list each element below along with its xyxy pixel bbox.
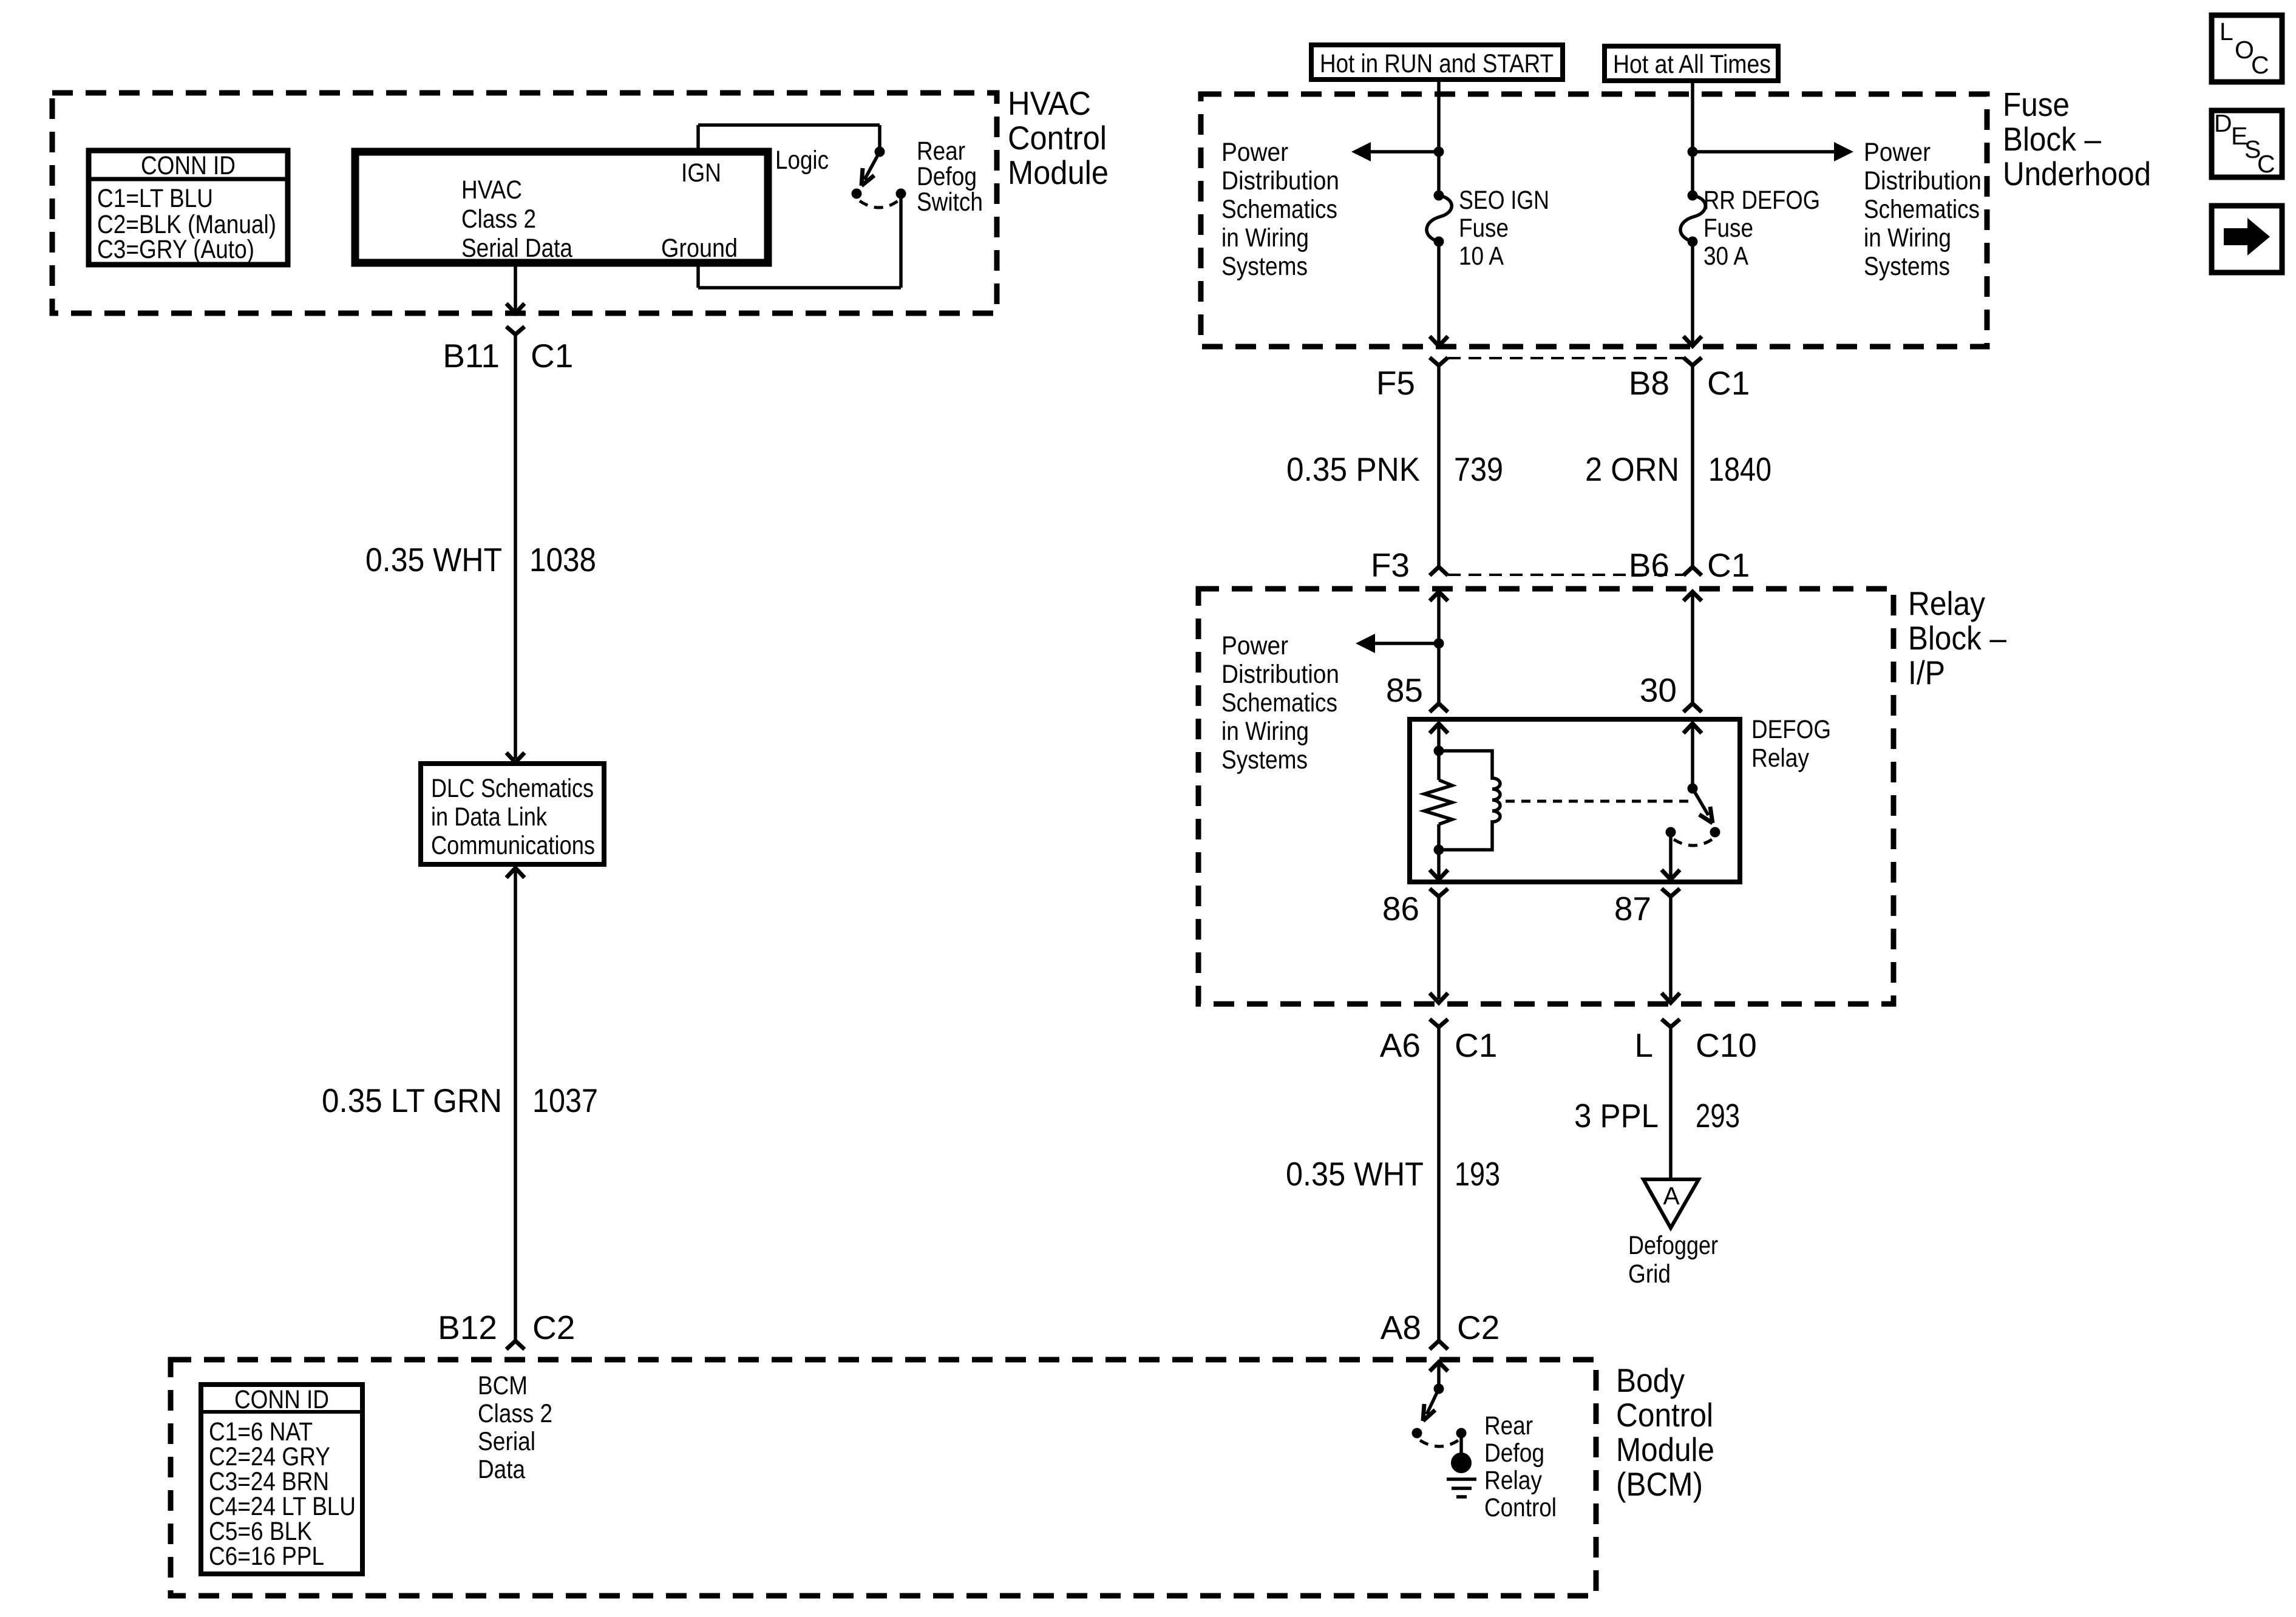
connector fork B12 xyxy=(506,1341,525,1349)
svg-text:B12: B12 xyxy=(438,1309,497,1346)
svg-text:30: 30 xyxy=(1640,671,1677,709)
wire 87 to relay border xyxy=(1669,897,1673,999)
wire B8 to B6 xyxy=(1691,365,1694,566)
wire resistor to pin 86 xyxy=(1437,824,1441,876)
svg-text:Power: Power xyxy=(1221,631,1288,660)
svg-text:0.35 WHT: 0.35 WHT xyxy=(1286,1155,1424,1193)
svg-text:Defog: Defog xyxy=(1484,1439,1544,1468)
rear defog switch (HVAC) xyxy=(852,147,906,208)
Power Distribution text (fuse right) xyxy=(1864,138,1982,281)
relay coil xyxy=(1439,751,1500,850)
svg-text:Defogger: Defogger xyxy=(1628,1231,1718,1260)
wire A6 to A8 xyxy=(1437,1027,1441,1340)
svg-text:Schematics: Schematics xyxy=(1864,195,1980,224)
arrowhead into relay block right xyxy=(1683,592,1702,601)
svg-text:Hot at All Times: Hot at All Times xyxy=(1613,50,1771,79)
svg-text:B8: B8 xyxy=(1629,364,1669,402)
svg-text:0.35 WHT: 0.35 WHT xyxy=(365,541,502,578)
svg-text:Power: Power xyxy=(1221,138,1288,167)
svg-text:10 A: 10 A xyxy=(1459,242,1504,271)
svg-text:B6: B6 xyxy=(1629,546,1669,584)
svg-text:Systems: Systems xyxy=(1864,252,1950,281)
wire to coil node xyxy=(1437,724,1441,780)
svg-text:1038: 1038 xyxy=(529,541,596,578)
svg-text:C1: C1 xyxy=(1455,1026,1497,1064)
svg-text:C6=16 PPL: C6=16 PPL xyxy=(209,1542,324,1571)
svg-text:739: 739 xyxy=(1454,450,1503,488)
svg-text:Ground: Ground xyxy=(661,234,738,263)
svg-text:L: L xyxy=(2220,18,2233,46)
connector fork B8 xyxy=(1683,358,1702,365)
svg-text:DLC Schematics: DLC Schematics xyxy=(431,774,594,803)
arrowhead pin 30 inside xyxy=(1683,724,1702,733)
connector fork B11 xyxy=(506,327,525,334)
svg-text:Systems: Systems xyxy=(1221,252,1308,281)
svg-text:A6: A6 xyxy=(1380,1026,1421,1064)
svg-text:86: 86 xyxy=(1382,890,1419,927)
wire L to defogger grid xyxy=(1669,1027,1673,1179)
svg-text:IGN: IGN xyxy=(681,158,721,188)
svg-text:Control: Control xyxy=(1616,1396,1713,1434)
svg-text:I/P: I/P xyxy=(1908,654,1945,691)
svg-text:Fuse: Fuse xyxy=(1703,214,1753,243)
Fuse Block title xyxy=(2003,86,2151,192)
svg-text:BCM: BCM xyxy=(478,1371,528,1400)
Hot at All Times label box xyxy=(1605,46,1778,81)
relay switch dashed arc xyxy=(1674,839,1712,846)
relay actuate dashed line xyxy=(1506,800,1693,803)
svg-text:Grid: Grid xyxy=(1628,1259,1671,1289)
svg-text:2 ORN: 2 ORN xyxy=(1585,450,1679,488)
RR DEFOG fuse xyxy=(1680,191,1705,247)
junction dot relay left xyxy=(1434,639,1444,649)
svg-text:Distribution: Distribution xyxy=(1221,166,1339,195)
HVAC control head box xyxy=(355,152,768,263)
connector fork F3 xyxy=(1430,567,1448,575)
arrowhead pin 86 xyxy=(1430,870,1448,880)
svg-text:87: 87 xyxy=(1614,890,1651,927)
svg-text:Communications: Communications xyxy=(431,831,595,860)
svg-text:C1=LT BLU: C1=LT BLU xyxy=(97,184,213,213)
svg-text:(BCM): (BCM) xyxy=(1616,1465,1703,1503)
svg-text:A: A xyxy=(1663,1182,1680,1210)
svg-text:Schematics: Schematics xyxy=(1221,688,1337,717)
wire fuse to border right xyxy=(1691,242,1694,345)
svg-text:Class 2: Class 2 xyxy=(461,205,536,234)
DESC legend box xyxy=(2212,109,2282,178)
wire F5 to F3 xyxy=(1437,365,1441,566)
relay switch common dot 87 xyxy=(1666,827,1676,838)
svg-text:C: C xyxy=(2257,150,2275,178)
wire B11 to DLC box xyxy=(514,334,517,759)
BCM switch dashed arc xyxy=(1420,1440,1458,1446)
svg-text:L: L xyxy=(1634,1026,1653,1064)
Body Control Module title xyxy=(1616,1361,1714,1503)
svg-text:193: 193 xyxy=(1455,1155,1500,1193)
Relay Block title xyxy=(1908,585,2006,691)
coil top node dot xyxy=(1434,746,1444,756)
svg-text:A8: A8 xyxy=(1381,1309,1421,1346)
arrowhead pin 87 xyxy=(1662,870,1680,880)
Power Distribution text (relay) xyxy=(1221,631,1339,775)
junction dot right feed xyxy=(1688,147,1698,157)
arrow to power distribution relay xyxy=(1356,634,1439,653)
arrow to power distribution right xyxy=(1693,142,1853,161)
pin 85 fork xyxy=(1430,703,1448,712)
svg-text:HVAC: HVAC xyxy=(1008,84,1091,122)
connector link dashed F5-B8 xyxy=(1448,357,1683,359)
Fuse Block Underhood dashed border xyxy=(1201,94,1987,347)
svg-text:Control: Control xyxy=(1484,1493,1557,1522)
svg-text:C10: C10 xyxy=(1696,1026,1757,1064)
svg-text:in Wiring: in Wiring xyxy=(1221,223,1309,253)
svg-text:Control: Control xyxy=(1008,119,1107,157)
junction dot left feed xyxy=(1434,147,1444,157)
arrowhead at fuse block bottom right xyxy=(1683,336,1702,346)
DEFOG Relay label xyxy=(1751,715,1831,773)
arrowhead at HVAC border xyxy=(506,303,525,313)
svg-text:in Data Link: in Data Link xyxy=(431,802,547,832)
svg-text:Block –: Block – xyxy=(2003,120,2101,158)
svg-text:Hot in RUN and START: Hot in RUN and START xyxy=(1320,49,1554,78)
svg-text:F5: F5 xyxy=(1376,364,1415,402)
relay switch pivot dot xyxy=(1688,784,1698,794)
svg-text:Schematics: Schematics xyxy=(1221,195,1337,224)
wire fuse to border left xyxy=(1437,242,1441,345)
wire from Hot in RUN box xyxy=(1437,80,1441,195)
svg-text:Logic: Logic xyxy=(775,146,829,175)
wire from Hot at All Times box xyxy=(1691,81,1694,195)
arrow legend box xyxy=(2212,206,2282,273)
wire to BCM switch xyxy=(1437,1362,1441,1389)
pin 86 fork below relay box xyxy=(1430,889,1448,897)
svg-text:Serial Data: Serial Data xyxy=(461,234,572,263)
pin 30 fork xyxy=(1683,703,1702,712)
connector fork A6 xyxy=(1430,1019,1448,1027)
arrowhead into DLC box xyxy=(506,753,525,762)
HVAC box labels xyxy=(461,158,738,263)
svg-text:30 A: 30 A xyxy=(1703,242,1748,271)
svg-text:85: 85 xyxy=(1386,671,1423,709)
svg-text:D: D xyxy=(2214,109,2232,137)
svg-text:Block –: Block – xyxy=(1908,619,2006,657)
svg-text:Distribution: Distribution xyxy=(1221,660,1339,689)
BCM switch arm xyxy=(1423,1389,1439,1421)
SEO IGN fuse xyxy=(1427,191,1452,247)
Rear Defog Switch label xyxy=(917,137,983,217)
CONN ID table (HVAC) xyxy=(89,151,288,265)
pin 87 fork below relay box xyxy=(1662,889,1680,897)
wire 87 down xyxy=(1669,832,1673,876)
RR DEFOG fuse label xyxy=(1703,186,1820,271)
svg-text:C: C xyxy=(2251,51,2269,79)
svg-text:Relay: Relay xyxy=(1908,585,1985,622)
LOC legend box xyxy=(2212,15,2282,82)
svg-text:C2: C2 xyxy=(1457,1309,1500,1346)
svg-text:C1: C1 xyxy=(531,337,573,375)
svg-text:in Wiring: in Wiring xyxy=(1221,717,1309,746)
Rear Defog Relay Control label xyxy=(1484,1411,1557,1522)
svg-text:Fuse: Fuse xyxy=(1459,214,1509,243)
SEO IGN fuse label xyxy=(1459,186,1549,271)
CONN ID table (BCM) xyxy=(201,1385,362,1574)
connector fork L xyxy=(1662,1019,1680,1027)
arrow to power distribution left xyxy=(1351,142,1439,161)
svg-text:Module: Module xyxy=(1008,154,1109,191)
BCM switch contact dot xyxy=(1456,1428,1467,1439)
arrowhead up into DLC bottom xyxy=(506,868,525,878)
arrowhead into relay block left xyxy=(1430,592,1448,601)
Hot in RUN and START label box xyxy=(1311,45,1563,80)
svg-text:CONN ID: CONN ID xyxy=(141,151,236,180)
relay switch contact dot xyxy=(1710,827,1720,838)
svg-text:DEFOG: DEFOG xyxy=(1751,715,1831,744)
wire 86 to relay border xyxy=(1437,897,1441,999)
defogger grid triangle A xyxy=(1643,1179,1699,1228)
svg-text:1037: 1037 xyxy=(532,1082,598,1119)
svg-text:Power: Power xyxy=(1864,138,1931,167)
svg-text:Underhood: Underhood xyxy=(2003,155,2151,192)
arrowhead into BCM xyxy=(1430,1362,1448,1371)
resistor xyxy=(1424,780,1452,824)
svg-text:RR DEFOG: RR DEFOG xyxy=(1703,186,1820,215)
arrowhead at relay border right xyxy=(1662,993,1680,1003)
BCM Class 2 Serial Data label xyxy=(478,1371,552,1484)
logic loop wire xyxy=(698,125,901,288)
svg-text:C2: C2 xyxy=(532,1309,575,1346)
arrowhead at relay border left xyxy=(1430,993,1448,1003)
Body Control Module dashed border xyxy=(171,1360,1596,1596)
svg-text:Relay: Relay xyxy=(1484,1466,1542,1495)
svg-text:Rear: Rear xyxy=(1484,1411,1533,1440)
relay switch arm xyxy=(1693,788,1713,823)
svg-text:Relay: Relay xyxy=(1751,744,1809,773)
svg-text:C1: C1 xyxy=(1707,364,1750,402)
HVAC Control Module dashed border xyxy=(52,93,997,313)
svg-text:Fuse: Fuse xyxy=(2003,86,2070,123)
svg-text:in Wiring: in Wiring xyxy=(1864,223,1951,253)
svg-text:Serial: Serial xyxy=(478,1427,535,1456)
wire into relay block left xyxy=(1437,592,1441,703)
BCM switch top dot xyxy=(1434,1384,1444,1394)
relay pin 85 arrow xyxy=(1430,724,1448,733)
svg-text:Systems: Systems xyxy=(1221,745,1308,775)
connector fork A8 xyxy=(1430,1341,1448,1349)
wire DLC to B12 xyxy=(514,868,517,1340)
ground stub xyxy=(1459,1433,1463,1454)
connector fork F5 xyxy=(1430,358,1448,365)
arrowhead at fuse block bottom left xyxy=(1430,336,1448,346)
Power Distribution text (fuse left) xyxy=(1221,138,1339,281)
svg-text:B11: B11 xyxy=(443,337,500,375)
svg-text:Body: Body xyxy=(1616,1361,1685,1399)
svg-text:Module: Module xyxy=(1616,1431,1714,1468)
connector link dashed F3-B6 xyxy=(1448,574,1683,576)
svg-text:C3=GRY (Auto): C3=GRY (Auto) xyxy=(97,235,254,264)
Defogger Grid label xyxy=(1628,1231,1718,1289)
svg-text:Rear: Rear xyxy=(917,137,965,166)
coil bottom node dot xyxy=(1434,845,1444,855)
DLC Schematics box xyxy=(421,764,604,864)
svg-text:HVAC: HVAC xyxy=(461,175,522,205)
svg-text:Class 2: Class 2 xyxy=(478,1399,552,1428)
connector fork B6 xyxy=(1683,567,1702,575)
svg-text:Defog: Defog xyxy=(917,162,977,191)
svg-text:0.35 LT GRN: 0.35 LT GRN xyxy=(322,1082,502,1119)
svg-text:Data: Data xyxy=(478,1455,525,1484)
svg-text:1840: 1840 xyxy=(1708,450,1771,488)
svg-text:Distribution: Distribution xyxy=(1864,166,1982,195)
svg-text:C1: C1 xyxy=(1707,546,1750,584)
wire into relay block right xyxy=(1691,592,1694,703)
svg-text:CONN ID: CONN ID xyxy=(234,1385,329,1414)
svg-text:3 PPL: 3 PPL xyxy=(1574,1097,1659,1134)
ground symbol xyxy=(1447,1453,1476,1497)
svg-text:F3: F3 xyxy=(1371,546,1410,584)
wire HVAC to border xyxy=(514,263,517,312)
svg-text:Switch: Switch xyxy=(917,188,983,217)
HVAC Control Module title xyxy=(1008,84,1109,191)
Relay Block IP dashed border xyxy=(1198,589,1894,1004)
svg-text:293: 293 xyxy=(1696,1097,1740,1134)
relay switch pivot wire xyxy=(1691,724,1694,788)
BCM switch common dot xyxy=(1412,1428,1422,1439)
svg-text:SEO IGN: SEO IGN xyxy=(1459,186,1549,215)
DEFOG relay box xyxy=(1410,719,1740,882)
svg-text:0.35 PNK: 0.35 PNK xyxy=(1286,450,1420,488)
